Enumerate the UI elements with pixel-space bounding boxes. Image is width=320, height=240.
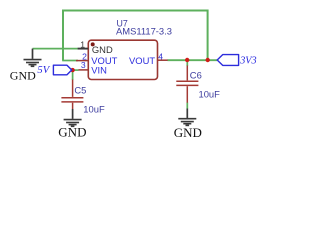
node output junction (206, 58, 210, 62)
power flag 3V3 (217, 55, 238, 66)
pin 2 stub (VOUT) (76, 60, 88, 62)
pin 3 stub (VIN) (79, 69, 89, 71)
wire GND1 to pin1 (33, 48, 78, 50)
svg-text:3V3: 3V3 (239, 56, 256, 67)
svg-text:10uF: 10uF (199, 89, 221, 100)
wire 5V node to pin3 (75, 69, 79, 71)
svg-text:10uF: 10uF (83, 103, 105, 114)
svg-text:C5: C5 (74, 85, 86, 96)
capacitor C6 (176, 66, 198, 103)
pin 1 stub (GND) (78, 48, 89, 50)
wire output (pin4 to 3V3 flag) (167, 59, 217, 61)
wire C6 top stub (186, 60, 188, 66)
ground symbol below C5 (64, 109, 82, 126)
svg-text:VIN: VIN (91, 65, 107, 76)
pin 4 stub (VOUT right) (158, 59, 168, 61)
power flag 5V (53, 65, 71, 75)
capacitor C5 (61, 80, 83, 110)
svg-text:GND: GND (10, 68, 36, 82)
svg-text:1: 1 (80, 39, 85, 49)
wire C6 bottom to ground (186, 103, 188, 109)
svg-text:GND: GND (92, 44, 113, 55)
svg-text:5V: 5V (37, 65, 50, 76)
wire 5V node down to C5 (72, 70, 74, 80)
svg-text:AMS1117-3.3: AMS1117-3.3 (116, 26, 172, 37)
svg-text:GND: GND (58, 125, 86, 140)
ground symbol below C6 (178, 109, 196, 126)
svg-text:VOUT: VOUT (129, 55, 155, 66)
wire VOUT top loop (pin2 to output node) (63, 11, 208, 61)
pin 1 marker dot (91, 42, 95, 46)
svg-text:3: 3 (81, 60, 86, 70)
svg-text:GND: GND (174, 125, 202, 140)
node C6 junction (185, 58, 189, 62)
ground symbol top-left (24, 49, 42, 67)
svg-text:4: 4 (158, 51, 163, 61)
op-amp U1 body: regulator U7 box (88, 40, 157, 79)
wire pin2 horizontal (62, 60, 78, 62)
node 5V junction (70, 68, 74, 72)
svg-text:C6: C6 (190, 70, 202, 81)
